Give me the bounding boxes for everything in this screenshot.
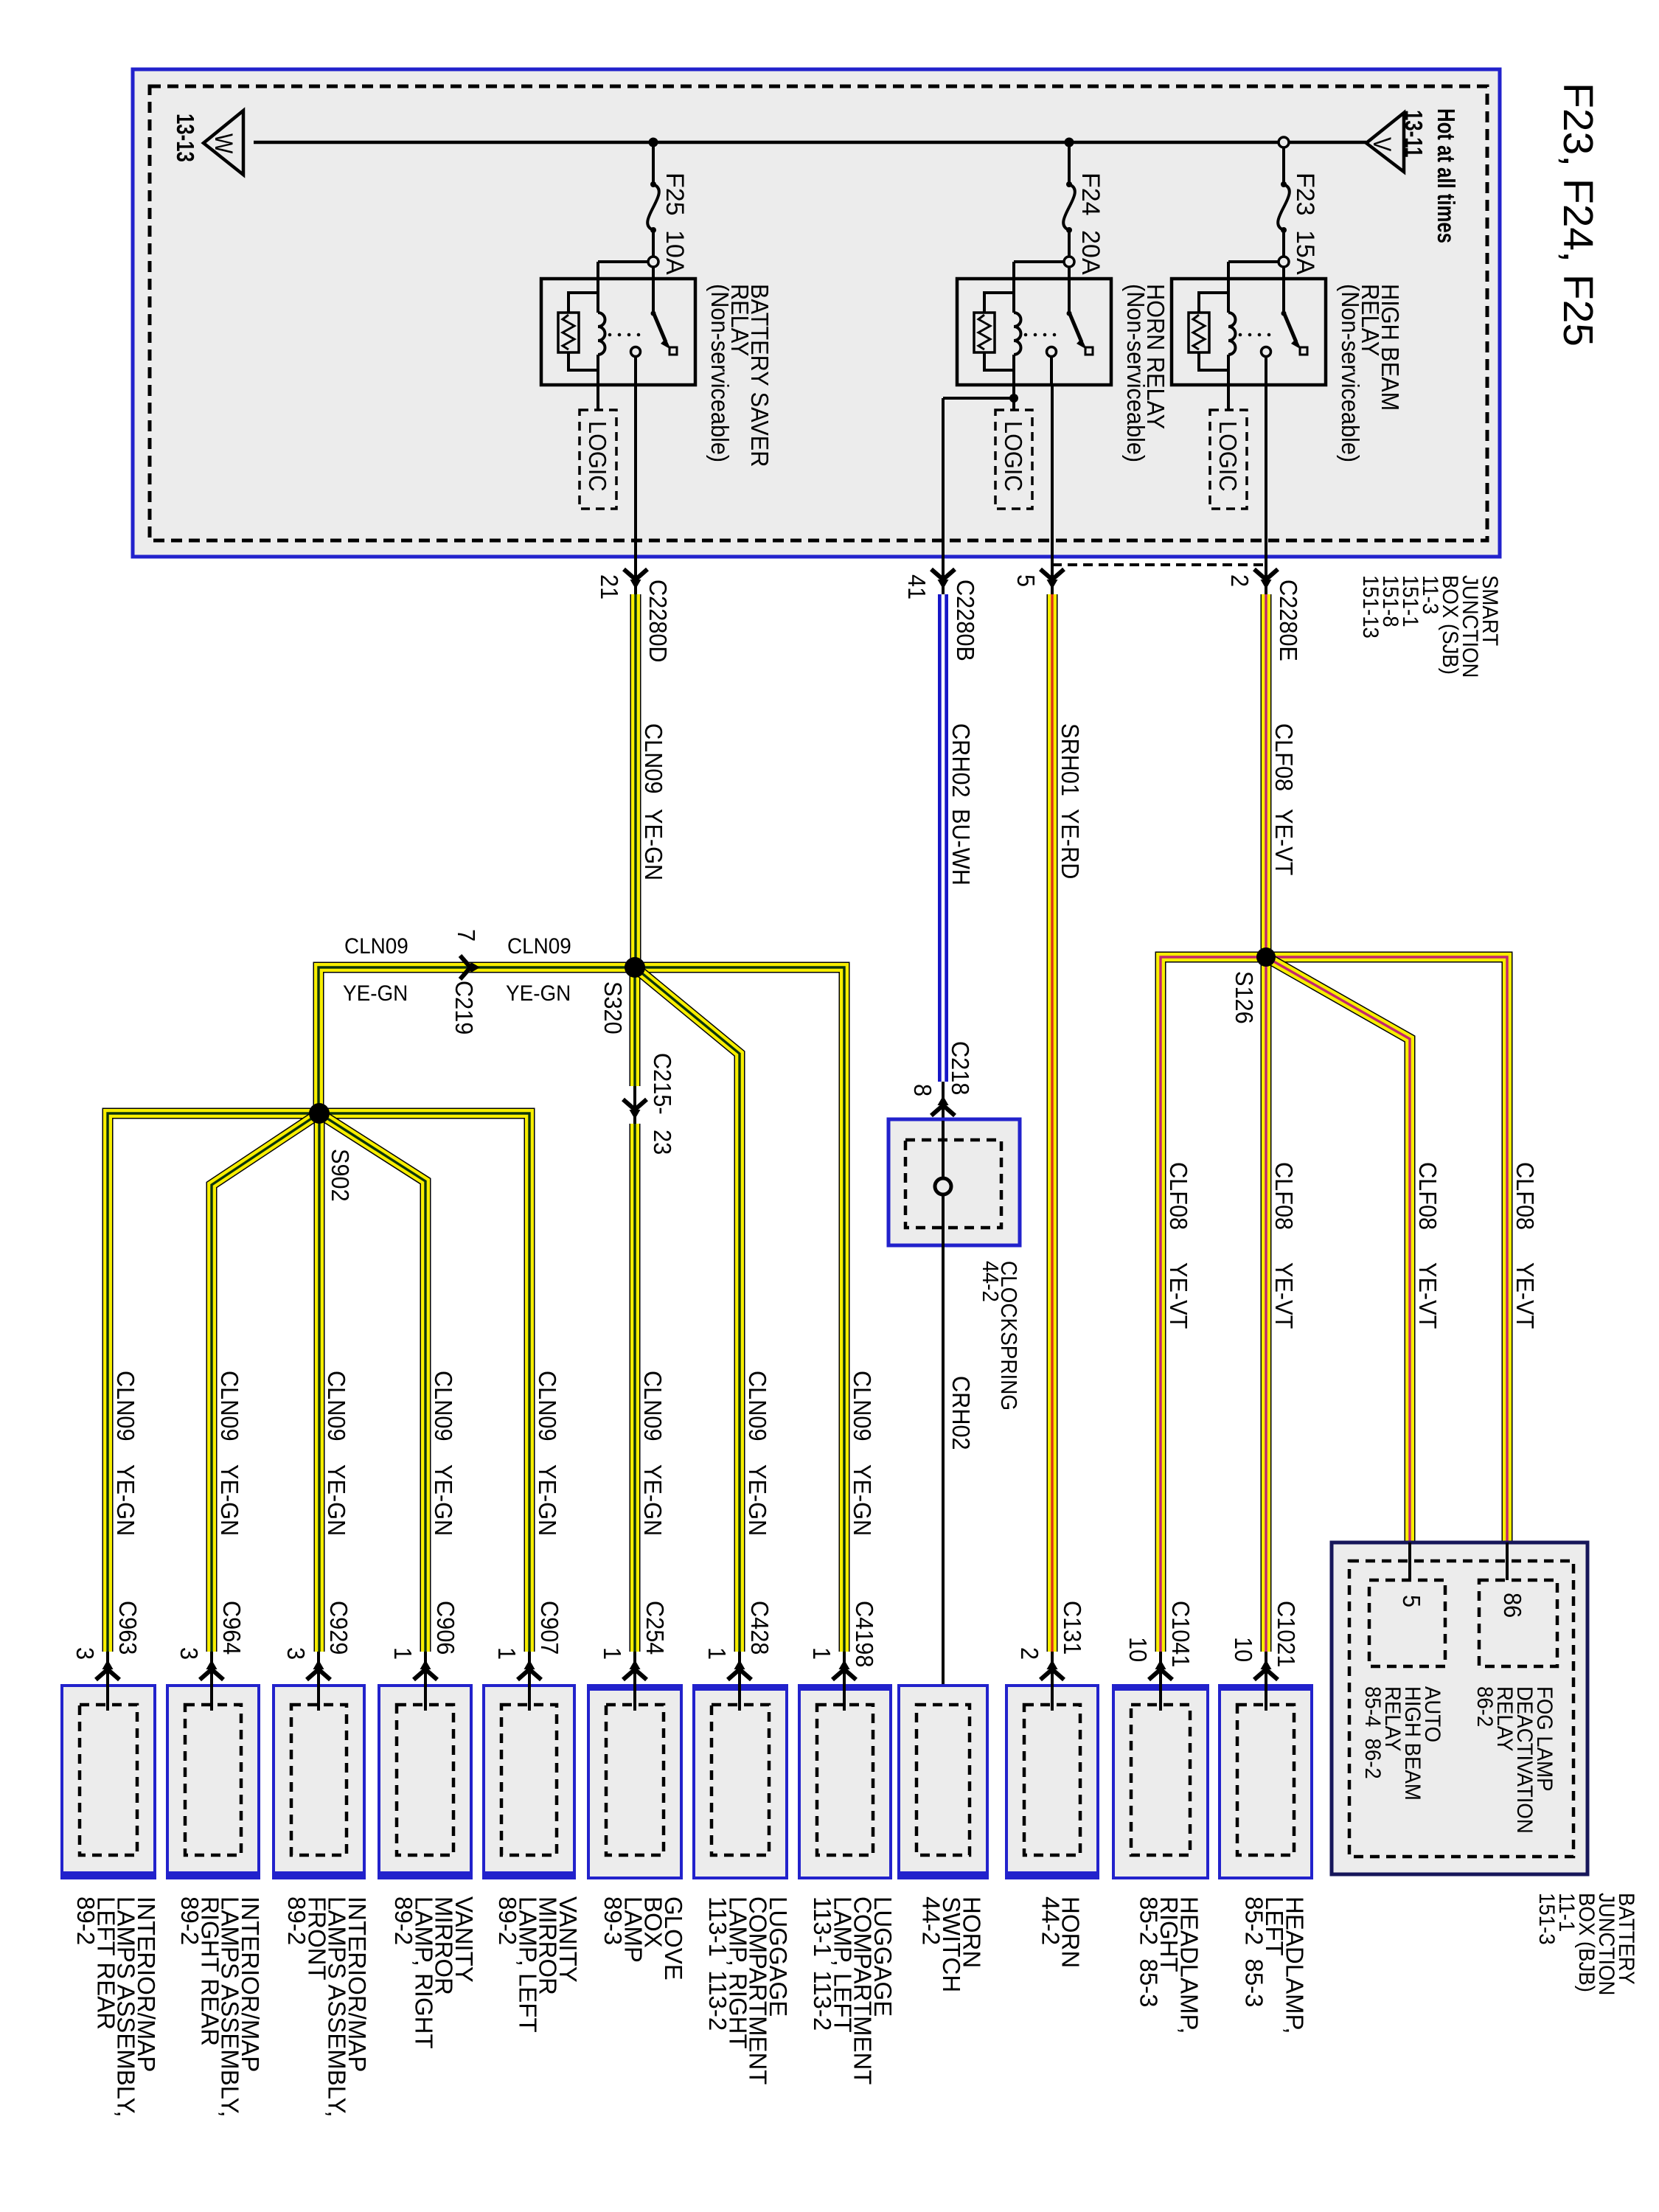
svg-text:(Non-serviceable): (Non-serviceable)	[1337, 284, 1364, 462]
svg-text:1: 1	[389, 1647, 417, 1660]
svg-text:10A: 10A	[661, 230, 689, 275]
svg-text:C2280E: C2280E	[1275, 580, 1302, 661]
svg-text:151-3: 151-3	[1534, 1893, 1559, 1945]
svg-text:1: 1	[703, 1647, 731, 1660]
svg-text:CLN09: CLN09	[112, 1371, 139, 1441]
svg-text:86: 86	[1499, 1593, 1526, 1618]
svg-text:21: 21	[596, 574, 623, 599]
svg-text:V: V	[1368, 137, 1397, 151]
svg-text:CLN09: CLN09	[344, 934, 408, 959]
svg-text:C2280B: C2280B	[952, 580, 979, 661]
svg-text:CLF08: CLF08	[1512, 1162, 1539, 1230]
svg-text:C963: C963	[114, 1601, 142, 1655]
svg-text:89-3: 89-3	[599, 1896, 627, 1945]
svg-text:85-2 85-3: 85-2 85-3	[1241, 1896, 1268, 2007]
svg-text:CLN09: CLN09	[507, 934, 571, 959]
svg-text:S902: S902	[327, 1149, 354, 1202]
svg-text:C907: C907	[536, 1601, 563, 1655]
svg-text:5: 5	[1398, 1595, 1425, 1607]
svg-text:C215-: C215-	[649, 1053, 676, 1115]
svg-text:10: 10	[1230, 1637, 1257, 1662]
svg-text:F25: F25	[661, 173, 689, 216]
svg-text:C254: C254	[641, 1601, 669, 1655]
svg-text:C964: C964	[218, 1601, 246, 1655]
svg-text:85-4 86-2: 85-4 86-2	[1360, 1686, 1385, 1779]
svg-text:S126: S126	[1231, 971, 1258, 1024]
svg-text:CLN09: CLN09	[216, 1371, 243, 1441]
svg-text:113-1 113-2: 113-1 113-2	[809, 1896, 836, 2031]
svg-text:C428: C428	[746, 1601, 773, 1655]
svg-text:CLN09: CLN09	[534, 1371, 561, 1441]
svg-text:CLF08: CLF08	[1270, 723, 1298, 791]
svg-text:YE-GN: YE-GN	[506, 981, 571, 1006]
svg-text:5: 5	[1012, 574, 1040, 587]
svg-text:YE-VT: YE-VT	[1270, 1262, 1298, 1329]
svg-text:7: 7	[453, 929, 480, 942]
svg-text:2: 2	[1016, 1647, 1043, 1660]
svg-text:YE-VT: YE-VT	[1512, 1262, 1539, 1329]
svg-text:C4198: C4198	[851, 1601, 878, 1667]
svg-text:CRH02: CRH02	[947, 723, 975, 798]
svg-text:YE-VT: YE-VT	[1270, 809, 1298, 875]
svg-text:LOGIC: LOGIC	[1214, 421, 1242, 491]
svg-text:F23, F24, F25: F23, F24, F25	[1554, 83, 1601, 347]
svg-text:F24: F24	[1077, 173, 1105, 216]
svg-text:LOGIC: LOGIC	[1000, 421, 1027, 491]
svg-text:(Non-serviceable): (Non-serviceable)	[1122, 284, 1150, 462]
svg-text:CLN09: CLN09	[430, 1371, 457, 1441]
svg-text:1: 1	[808, 1647, 835, 1660]
svg-text:C218: C218	[947, 1041, 974, 1095]
svg-text:YE-GN: YE-GN	[216, 1464, 243, 1536]
svg-text:YE-GN: YE-GN	[640, 809, 667, 880]
svg-text:10: 10	[1124, 1637, 1152, 1662]
svg-text:3: 3	[72, 1647, 99, 1660]
svg-text:151-13: 151-13	[1358, 575, 1382, 639]
svg-text:CLN09: CLN09	[323, 1371, 350, 1441]
svg-text:CLN09: CLN09	[639, 1371, 667, 1441]
svg-text:YE-VT: YE-VT	[1414, 1262, 1441, 1329]
svg-text:W: W	[209, 133, 238, 153]
svg-text:C219: C219	[451, 981, 478, 1034]
svg-text:89-2: 89-2	[390, 1896, 417, 1945]
svg-text:F23: F23	[1291, 173, 1319, 216]
svg-text:CLN09: CLN09	[744, 1371, 771, 1441]
svg-text:YE-GN: YE-GN	[534, 1464, 561, 1536]
svg-text:YE-GN: YE-GN	[849, 1464, 876, 1536]
svg-text:YE-VT: YE-VT	[1165, 1262, 1192, 1329]
svg-text:44-2: 44-2	[1037, 1896, 1064, 1945]
svg-text:YE-GN: YE-GN	[430, 1464, 457, 1536]
svg-text:SRH01: SRH01	[1057, 723, 1084, 796]
svg-text:15A: 15A	[1291, 230, 1319, 275]
svg-text:LOGIC: LOGIC	[584, 421, 611, 491]
svg-text:113-1 113-2: 113-1 113-2	[704, 1896, 731, 2031]
svg-text:85-2 85-3: 85-2 85-3	[1135, 1896, 1163, 2007]
svg-text:44-2: 44-2	[918, 1896, 945, 1945]
svg-text:86-2: 86-2	[1472, 1686, 1497, 1727]
svg-text:89-2: 89-2	[72, 1896, 100, 1945]
svg-text:C131: C131	[1059, 1601, 1086, 1655]
svg-text:CLN09: CLN09	[640, 723, 667, 794]
svg-text:YE-GN: YE-GN	[112, 1464, 139, 1536]
svg-text:44-2: 44-2	[978, 1261, 1004, 1302]
svg-text:CLF08: CLF08	[1414, 1162, 1441, 1230]
svg-text:89-2: 89-2	[176, 1896, 204, 1945]
svg-text:1: 1	[493, 1647, 521, 1660]
svg-text:S320: S320	[599, 981, 627, 1034]
svg-text:CLN09: CLN09	[849, 1371, 876, 1441]
svg-text:C1021: C1021	[1273, 1601, 1300, 1667]
svg-text:C929: C929	[325, 1601, 352, 1655]
svg-text:BU-WH: BU-WH	[947, 809, 975, 886]
svg-text:89-2: 89-2	[283, 1896, 310, 1945]
svg-text:YE-GN: YE-GN	[323, 1464, 350, 1536]
svg-text:(Non-serviceable): (Non-serviceable)	[706, 284, 734, 462]
svg-text:C1041: C1041	[1167, 1601, 1194, 1667]
svg-text:13-11: 13-11	[1399, 110, 1427, 157]
svg-text:C906: C906	[432, 1601, 459, 1655]
svg-text:YE-RD: YE-RD	[1057, 809, 1084, 879]
svg-text:3: 3	[175, 1647, 203, 1660]
svg-text:13-13: 13-13	[171, 114, 198, 162]
svg-text:YE-GN: YE-GN	[744, 1464, 771, 1536]
svg-text:8: 8	[909, 1084, 936, 1096]
svg-text:YE-GN: YE-GN	[343, 981, 408, 1006]
svg-text:CRH02: CRH02	[947, 1376, 975, 1450]
svg-text:YE-GN: YE-GN	[639, 1464, 667, 1536]
svg-text:1: 1	[599, 1647, 626, 1660]
svg-text:CLF08: CLF08	[1270, 1162, 1298, 1230]
svg-text:Hot at all times: Hot at all times	[1432, 108, 1459, 243]
svg-text:23: 23	[649, 1130, 676, 1155]
svg-text:2: 2	[1226, 574, 1253, 587]
svg-text:3: 3	[282, 1647, 310, 1660]
svg-text:CLF08: CLF08	[1165, 1162, 1192, 1230]
svg-text:89-2: 89-2	[494, 1896, 521, 1945]
svg-text:C2280D: C2280D	[644, 580, 672, 663]
svg-text:20A: 20A	[1077, 230, 1105, 275]
svg-text:41: 41	[903, 574, 931, 599]
